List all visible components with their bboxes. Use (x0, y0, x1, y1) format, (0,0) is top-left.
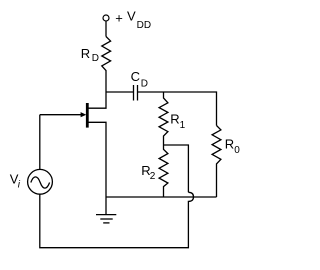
svg-text:DD: DD (137, 20, 151, 31)
svg-text:D: D (92, 53, 99, 64)
svg-text:D: D (141, 78, 148, 89)
svg-text:C: C (131, 69, 140, 84)
svg-text:+: + (115, 10, 123, 25)
svg-text:i: i (18, 180, 21, 191)
svg-text:1: 1 (180, 120, 186, 131)
svg-text:0: 0 (234, 145, 240, 156)
svg-text:2: 2 (150, 171, 156, 182)
svg-text:R: R (170, 112, 179, 127)
svg-text:R: R (225, 137, 234, 152)
svg-text:V: V (127, 8, 136, 23)
svg-text:R: R (81, 46, 90, 61)
